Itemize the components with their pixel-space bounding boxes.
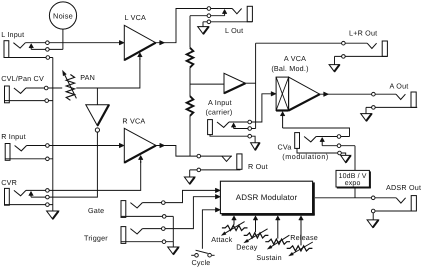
node A Input sleeve contact	[248, 134, 252, 138]
wire CVL tip right	[76, 58, 140, 88]
svg-text:Attack: Attack	[211, 235, 232, 244]
label Sustain	[256, 253, 281, 262]
node L+R Out tip contact	[342, 41, 346, 45]
svg-text:A VCA: A VCA	[284, 54, 306, 63]
svg-text:CVL/Pan CV: CVL/Pan CV	[1, 74, 44, 83]
arrow R VCA output	[160, 143, 165, 148]
arrow ADSR gate input	[215, 188, 220, 193]
svg-text:(carrier): (carrier)	[206, 107, 233, 116]
node A Input tip contact	[248, 120, 252, 124]
node L Input ring contact	[46, 48, 50, 52]
expo converter 10dB/V	[336, 170, 371, 187]
jack J12 Gate	[121, 201, 142, 218]
wire Gate/Trigger ground bus	[172, 216, 174, 247]
inverter U2	[86, 105, 109, 132]
svg-text:Cycle: Cycle	[192, 258, 211, 267]
node Trigger tip contact	[162, 227, 166, 231]
node R Input tip contact	[46, 144, 50, 148]
svg-text:Release: Release	[290, 233, 318, 242]
switch contact arrow L Out	[222, 9, 227, 15]
noise source	[49, 2, 76, 29]
wire A Input tip	[229, 94, 272, 122]
potentiometer Sustain	[265, 235, 290, 249]
svg-text:CVa: CVa	[278, 143, 292, 152]
svg-text:R Input: R Input	[1, 132, 26, 141]
node CVa sleeve contact	[338, 151, 342, 155]
wire L+R Out tip	[256, 42, 368, 44]
label L VCA	[125, 13, 147, 22]
jack J9 A Out	[396, 92, 416, 107]
label L Out	[225, 26, 243, 35]
wire R Out sleeve	[190, 170, 241, 177]
wire inverter input stub	[96, 88, 98, 105]
node L Out sleeve contact	[207, 20, 211, 24]
label R Out	[248, 162, 268, 171]
svg-text:ADSR Modulator: ADSR Modulator	[236, 193, 298, 202]
node R Out sleeve contact	[197, 168, 201, 172]
arrow L VCA output	[160, 40, 165, 45]
potentiometer Decay	[244, 229, 269, 243]
label CVL/Pan CV	[1, 74, 44, 83]
arrow R VCA input	[119, 143, 124, 148]
wire L VCA cv arrow	[138, 53, 143, 60]
label L Input	[1, 30, 24, 39]
svg-text:PAN: PAN	[80, 73, 95, 82]
wire ground bus	[52, 58, 54, 212]
wire CVa ring	[322, 146, 355, 171]
potentiometer Attack	[221, 222, 247, 236]
wire A Input ring	[234, 128, 256, 130]
ground CVa	[341, 155, 351, 162]
wire Cycle	[202, 210, 216, 249]
node L Out tip contact	[207, 7, 211, 11]
label PAN	[80, 73, 95, 82]
node A Out sleeve contact	[372, 106, 376, 110]
wire L VCA output	[156, 9, 233, 43]
wire Attack	[232, 216, 237, 225]
wire Sustain	[276, 216, 281, 239]
svg-text:R Out: R Out	[248, 162, 268, 171]
node L Input tip contact	[46, 41, 50, 45]
label L+R Out	[349, 29, 377, 38]
wire A Out sleeve	[366, 107, 417, 113]
label Cycle	[192, 258, 211, 267]
resistor R2	[187, 96, 194, 116]
label A Input	[208, 98, 232, 107]
svg-text:L VCA: L VCA	[125, 13, 147, 22]
label modulation	[282, 152, 329, 161]
svg-text:A Input: A Input	[208, 98, 232, 107]
wire chain middle	[189, 67, 191, 96]
jack J1 L Input	[4, 41, 25, 58]
wire CVa tip	[316, 136, 349, 138]
op-amp U3 mix buffer	[224, 73, 245, 93]
node R Input sleeve contact	[46, 157, 50, 161]
node L+R Out sleeve contact	[342, 55, 346, 59]
wire Trigger tip	[142, 197, 216, 229]
wire CVL sleeve	[5, 100, 53, 102]
wire Release	[299, 216, 304, 246]
wire Gate tip	[142, 190, 216, 202]
node A Input ring contact	[248, 127, 252, 131]
wire CVR tip	[26, 161, 141, 190]
label Bal. Mod.	[271, 64, 308, 73]
wire L+R Out sleeve	[335, 56, 388, 64]
node A Out tip contact	[372, 92, 376, 96]
arrow ADSR trigger input	[215, 194, 220, 199]
jack J5 L Out	[232, 6, 252, 21]
svg-text:R VCA: R VCA	[122, 117, 145, 126]
wire L Input ring	[31, 48, 63, 50]
svg-text:Gate: Gate	[88, 206, 104, 215]
wire A Out tip	[320, 93, 396, 95]
wire R VCA output	[156, 146, 232, 157]
arrow L VCA input	[119, 40, 124, 45]
ground A Out	[361, 114, 372, 121]
wire R Input sleeve	[5, 158, 52, 160]
wire L+R vertical	[255, 43, 257, 128]
wire Gate sleeve	[121, 215, 173, 217]
node L Input sleeve contact	[46, 56, 50, 60]
wire R VCA cv arrow	[138, 155, 143, 163]
switch contact arrow L Input	[29, 44, 34, 50]
arrow bal-mod carrier input	[271, 92, 276, 97]
wire L Out sleeve	[203, 22, 252, 27]
switch contact arrow CVa	[320, 137, 325, 145]
node ADSR Out sleeve contact	[371, 209, 375, 213]
wire expo to ADSR out	[354, 188, 356, 198]
node CVR ring contact	[46, 195, 50, 199]
wire A Input sleeve	[210, 135, 255, 143]
node CVR sleeve contact	[46, 203, 50, 207]
wire L Input tip	[25, 42, 121, 44]
label carrier	[206, 107, 233, 116]
label Decay	[236, 243, 258, 252]
ground L+R Out	[329, 65, 339, 72]
ground ADSR Out	[367, 220, 378, 228]
svg-text:Trigger: Trigger	[84, 234, 108, 243]
ground A Input	[251, 143, 260, 150]
ground bus ground	[47, 211, 59, 219]
node CVa ring contact	[337, 144, 341, 148]
label A VCA	[284, 54, 306, 63]
potentiometer Release	[287, 242, 313, 256]
potentiometer PAN	[62, 70, 76, 100]
jack J7 R Out	[222, 154, 242, 169]
switch contact arrow CVR	[29, 191, 34, 197]
svg-text:L+R Out: L+R Out	[349, 29, 377, 38]
label Gate	[88, 206, 104, 215]
wire Decay	[253, 216, 258, 232]
svg-text:L Out: L Out	[225, 26, 243, 35]
svg-text:Sustain: Sustain	[256, 253, 281, 262]
arrow bal-mod mod input	[280, 112, 285, 128]
node Gate sleeve contact	[162, 215, 166, 219]
jack J6 L+R Out	[367, 41, 387, 56]
node CVR tip contact	[46, 189, 50, 193]
node Gate tip contact	[162, 201, 166, 205]
jack J11 ADSR Out	[396, 196, 416, 211]
wire CVa sleeve	[297, 148, 346, 155]
op-amp U4 R VCA	[124, 128, 156, 162]
balanced modulator U5 A VCA	[276, 77, 320, 110]
svg-text:A Out: A Out	[390, 81, 409, 90]
node CVL tip contact	[44, 86, 48, 90]
resistor R1	[187, 48, 194, 68]
label R Input	[1, 132, 26, 141]
jack J10 CVa	[295, 133, 316, 149]
wire ADSR output	[315, 197, 396, 199]
svg-text:Noise: Noise	[53, 12, 73, 21]
svg-text:(Bal. Mod.): (Bal. Mod.)	[271, 64, 308, 73]
svg-text:expo: expo	[345, 180, 361, 187]
label CVR	[1, 178, 17, 187]
ADSR modulator U6	[220, 181, 314, 215]
op-amp U1 L VCA	[124, 25, 155, 60]
wire CVR sleeve	[5, 204, 53, 206]
wire noise stem	[62, 29, 64, 49]
label A Out	[390, 81, 409, 90]
svg-text:10dB / V: 10dB / V	[339, 172, 367, 180]
switch S1 Cycle	[191, 250, 214, 257]
wire mix tap	[190, 83, 224, 85]
svg-text:ADSR Out: ADSR Out	[386, 183, 421, 192]
label Release	[290, 233, 318, 242]
ground Gate/Trigger	[168, 247, 179, 254]
node R Out tip contact	[197, 154, 201, 158]
jack J4 CVR	[5, 188, 26, 205]
wire R Input tip	[27, 145, 121, 147]
jack J8 A Input	[208, 120, 229, 135]
svg-text:L Input: L Input	[1, 30, 24, 39]
wire chain top	[189, 16, 191, 48]
label Attack	[211, 235, 232, 244]
ground L Out	[198, 27, 209, 34]
wire inverter output	[31, 132, 97, 197]
label Trigger	[84, 234, 108, 243]
wire bal-mod mod feed	[283, 128, 350, 137]
arrow A VCA output	[324, 92, 329, 97]
svg-text:CVR: CVR	[1, 178, 17, 187]
wire L Input sleeve	[4, 57, 53, 59]
wire Trigger sleeve	[121, 241, 173, 243]
jack J2 CVL/Pan CV	[5, 86, 26, 103]
node CVL sleeve contact	[45, 99, 49, 103]
wire ADSR Out sleeve	[373, 211, 416, 220]
wire CVL tip left	[26, 87, 62, 89]
wire chain bottom	[189, 116, 191, 156]
arrow ADSR cycle input	[215, 208, 220, 213]
switch contact arrow A Input	[231, 123, 236, 129]
wire buffer output	[245, 82, 255, 84]
label CVa	[278, 143, 292, 152]
svg-text:Decay: Decay	[236, 243, 258, 252]
ground R Out	[184, 177, 194, 184]
node CVa tip contact	[337, 135, 341, 139]
jack J13 Trigger	[121, 227, 142, 244]
label ADSR Out	[386, 183, 421, 192]
svg-text:(modulation): (modulation)	[282, 152, 329, 161]
node Trigger sleeve contact	[162, 240, 166, 244]
node L Out ring contact	[207, 14, 211, 18]
node ADSR Out tip contact	[371, 196, 375, 200]
wire L Out ring	[190, 15, 225, 17]
label R VCA	[122, 117, 145, 126]
jack J3 R Input	[5, 144, 26, 161]
